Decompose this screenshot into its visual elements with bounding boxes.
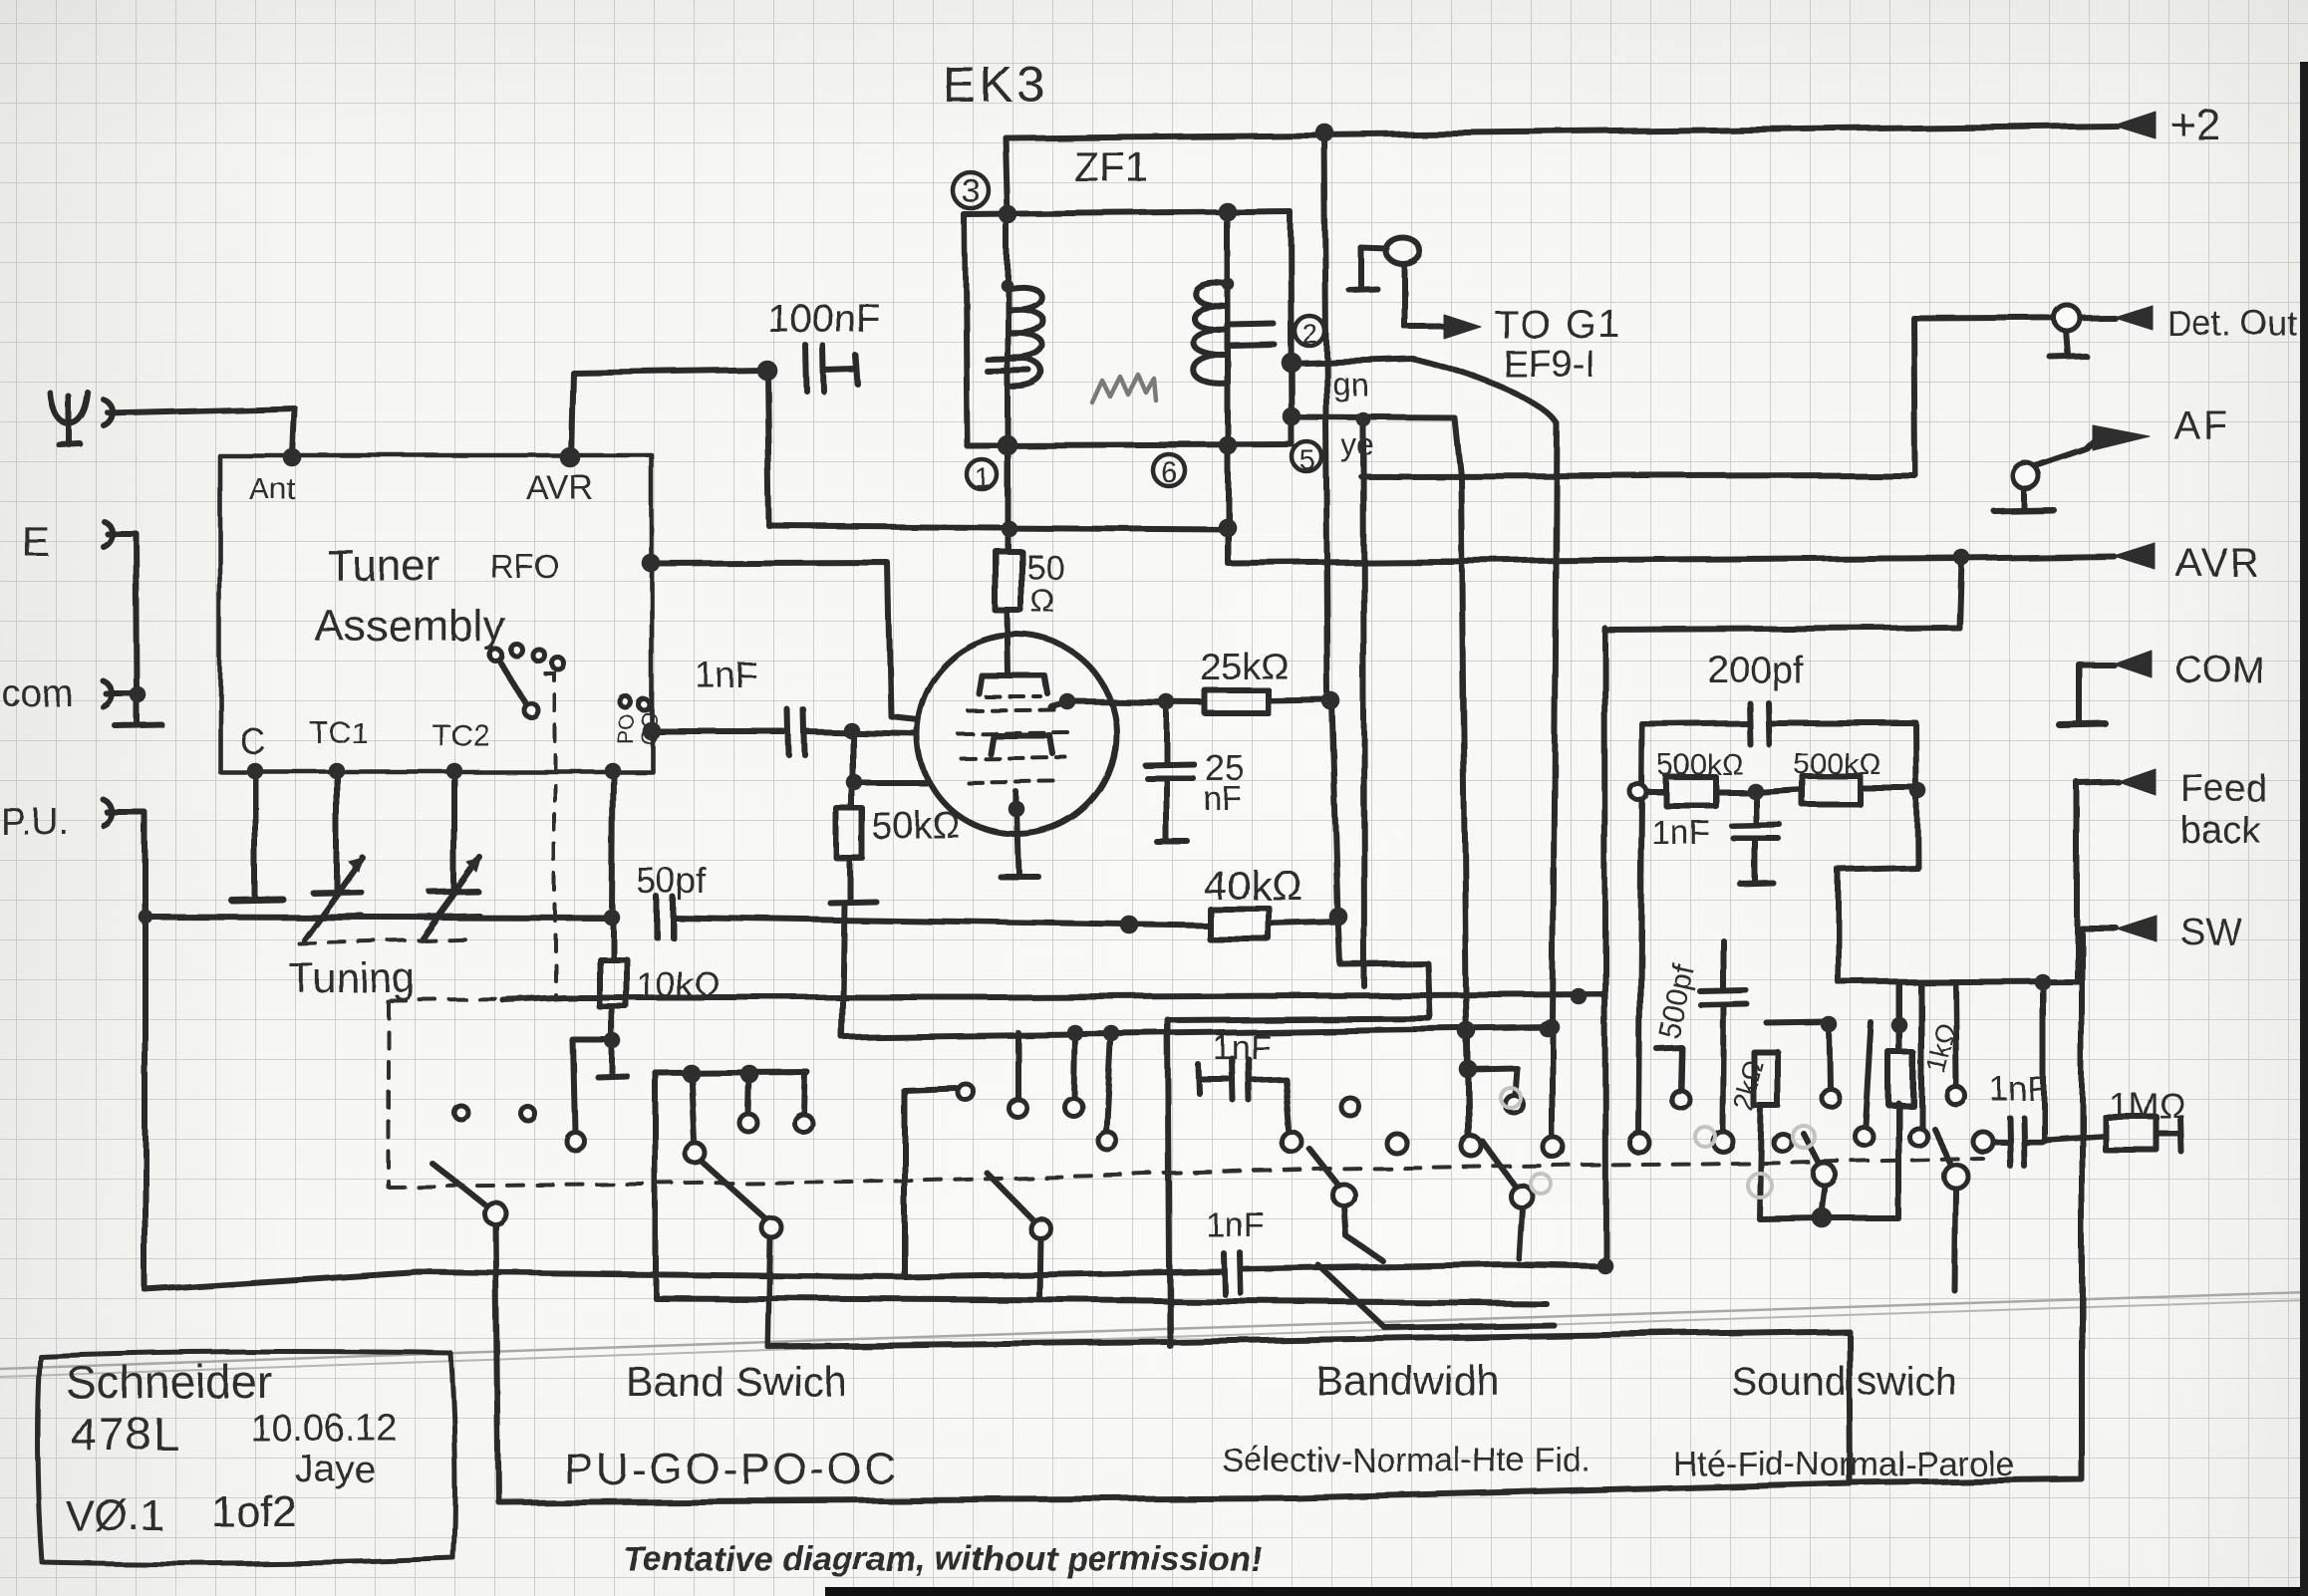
svg-text:Tentative diagram, without per: Tentative diagram, without permission!: [623, 1540, 1262, 1578]
svg-text:500kΩ: 500kΩ: [1656, 748, 1743, 781]
svg-text:TO G1: TO G1: [1494, 303, 1622, 347]
svg-text:2: 2: [1301, 318, 1317, 349]
svg-text:1nF: 1nF: [1651, 814, 1710, 852]
svg-text:TC1: TC1: [310, 715, 369, 750]
svg-text:50pf: 50pf: [636, 860, 707, 901]
svg-text:RFO: RFO: [490, 548, 560, 585]
svg-text:1nF: 1nF: [1989, 1070, 2048, 1108]
svg-text:TC2: TC2: [432, 717, 490, 752]
svg-text:478L: 478L: [71, 1408, 180, 1460]
svg-text:+2: +2: [2170, 101, 2220, 149]
svg-text:25kΩ: 25kΩ: [1200, 647, 1290, 688]
svg-text:500kΩ: 500kΩ: [1794, 748, 1880, 781]
svg-text:1nF: 1nF: [696, 655, 757, 695]
svg-text:P.U.: P.U.: [0, 801, 69, 843]
svg-text:1nF: 1nF: [1206, 1206, 1265, 1244]
svg-text:com: com: [2, 673, 74, 715]
svg-text:Tuning: Tuning: [289, 954, 416, 1001]
svg-text:nF: nF: [1203, 779, 1242, 816]
svg-text:40kΩ: 40kΩ: [1204, 862, 1302, 909]
svg-text:ye: ye: [1340, 426, 1374, 462]
svg-text:1of2: 1of2: [211, 1487, 297, 1536]
svg-text:Assembly: Assembly: [315, 602, 505, 651]
svg-text:Sélectiv-Normal-Hte Fid.: Sélectiv-Normal-Hte Fid.: [1222, 1442, 1590, 1479]
svg-text:1nF: 1nF: [1213, 1029, 1272, 1067]
svg-text:C: C: [240, 721, 266, 762]
svg-text:back: back: [2180, 810, 2261, 852]
svg-text:Sound swich: Sound swich: [1731, 1360, 1957, 1404]
svg-text:5: 5: [1298, 443, 1314, 474]
svg-text:VØ.1: VØ.1: [65, 1491, 164, 1540]
svg-text:AF: AF: [2173, 403, 2230, 447]
svg-text:COM: COM: [2175, 650, 2264, 691]
svg-text:Jaye: Jaye: [295, 1449, 375, 1490]
svg-text:50kΩ: 50kΩ: [871, 805, 961, 847]
svg-text:EK3: EK3: [943, 57, 1049, 113]
svg-text:Hté-Fid-Normal-Parole: Hté-Fid-Normal-Parole: [1673, 1446, 2014, 1483]
svg-text:6: 6: [1161, 456, 1178, 489]
svg-text:10kΩ: 10kΩ: [636, 964, 721, 1005]
svg-text:gn: gn: [1333, 367, 1369, 402]
svg-text:Tuner: Tuner: [327, 541, 439, 590]
svg-text:GO: GO: [637, 711, 662, 745]
svg-text:E: E: [22, 518, 50, 565]
svg-text:SW: SW: [2180, 912, 2241, 953]
svg-text:Ω: Ω: [1030, 583, 1054, 619]
svg-text:Det. Out: Det. Out: [2166, 304, 2297, 343]
svg-text:AVR: AVR: [526, 469, 593, 507]
svg-text:ZF1: ZF1: [1074, 143, 1149, 190]
svg-text:PU-GO-PO-OC: PU-GO-PO-OC: [564, 1445, 899, 1493]
svg-text:Band Swich: Band Swich: [626, 1358, 847, 1405]
svg-text:200pf: 200pf: [1708, 650, 1804, 691]
svg-text:10.06.12: 10.06.12: [250, 1408, 398, 1450]
svg-text:Bandwidh: Bandwidh: [1315, 1357, 1499, 1404]
svg-text:100nF: 100nF: [767, 297, 880, 341]
svg-text:PO: PO: [614, 713, 639, 745]
svg-text:Feed: Feed: [2180, 768, 2267, 810]
svg-text:1: 1: [974, 461, 990, 492]
svg-text:50: 50: [1026, 549, 1064, 587]
svg-text:EF9-I: EF9-I: [1503, 344, 1595, 386]
svg-text:3: 3: [962, 172, 981, 210]
svg-text:1MΩ: 1MΩ: [2109, 1085, 2185, 1126]
svg-text:Schneider: Schneider: [66, 1356, 272, 1408]
svg-text:Ant: Ant: [249, 471, 296, 506]
svg-text:AVR: AVR: [2175, 541, 2260, 585]
